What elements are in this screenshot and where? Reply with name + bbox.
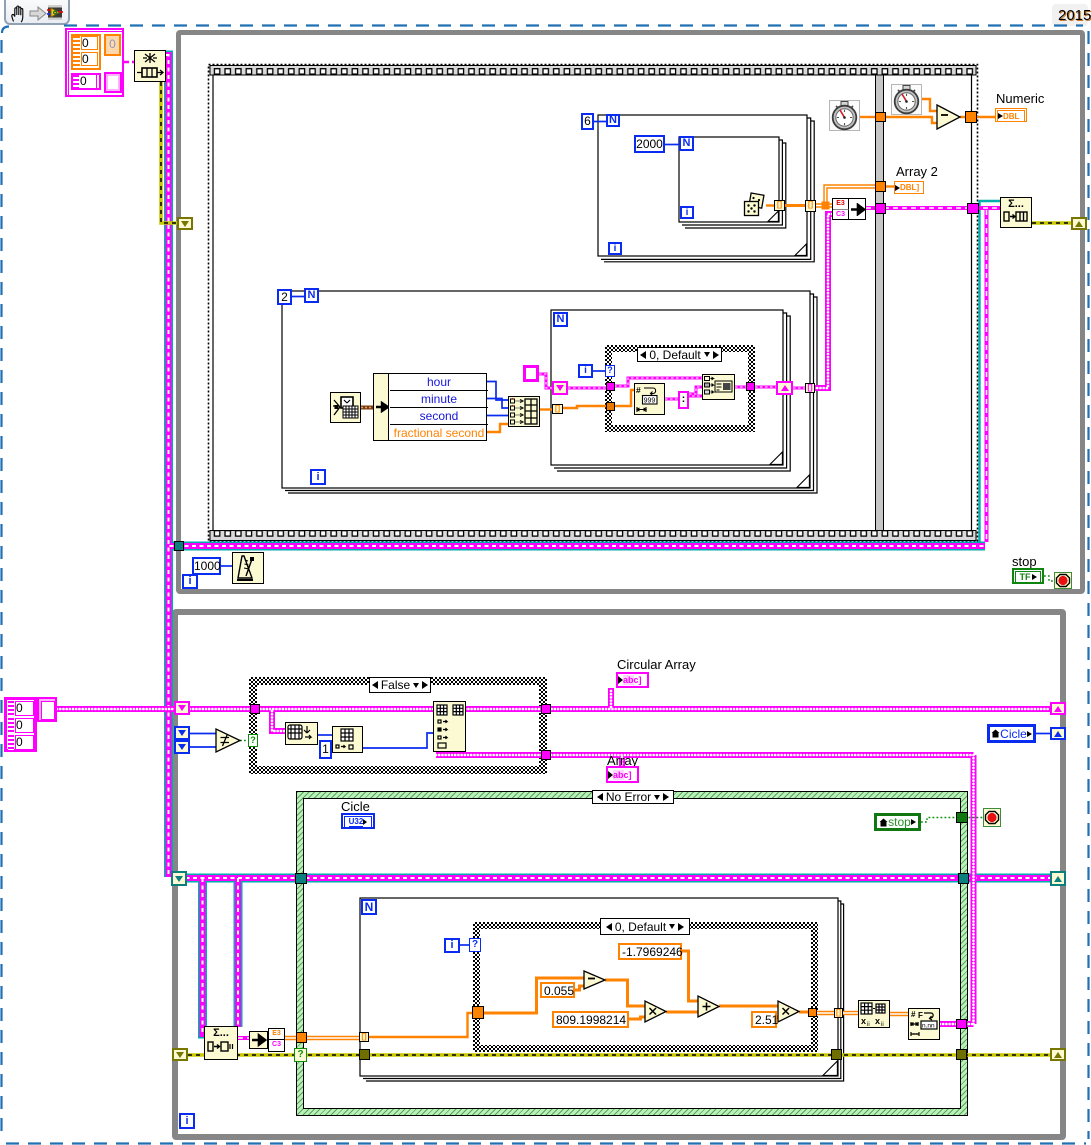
replace array subset icon (False case)	[433, 701, 466, 752]
wire: teal branch to queue node	[980, 201, 1001, 542]
olive tunnel green-border right	[956, 1049, 967, 1060]
delete from array icon (False case)	[332, 726, 363, 753]
magenta tunnel case E left	[606, 382, 615, 391]
orange tunnel case E left	[606, 402, 615, 411]
local variable stop	[874, 813, 921, 831]
loop B count terminal N	[679, 136, 694, 151]
terminal stop TF	[1012, 568, 1044, 584]
wire: blue wires	[190, 122, 1050, 946]
wire: orange scalar wires	[368, 99, 995, 1037]
index array icon (False case)	[285, 722, 318, 745]
wire: orange thick wires inside bottom case	[484, 206, 808, 1020]
constant 6	[581, 113, 594, 130]
interpolate 2D array node	[858, 1000, 890, 1028]
magenta tunnel green-border right (array out)	[956, 1019, 967, 1029]
case structure False border	[249, 677, 547, 774]
wire: composite teal/pink object wires	[166, 55, 1052, 1034]
shift register teal right (while2)	[1050, 871, 1066, 886]
for loop A fold corner	[795, 244, 806, 255]
op: multiply 2	[778, 1001, 799, 1022]
indicator Numeric DBL	[995, 108, 1027, 122]
toolbar hand icon	[9, 4, 29, 23]
array constant (bottom-left)	[4, 697, 37, 752]
svg-text:#: #	[636, 385, 641, 395]
sequence bottom film strip	[210, 531, 976, 541]
green junction square on case border	[956, 812, 968, 823]
loop F iteration terminal i	[444, 938, 460, 953]
for loop C fold corner	[797, 475, 809, 487]
toolbar run arrow icon	[29, 6, 47, 21]
icon: metronome (wait until next ms)	[233, 553, 264, 584]
constant 1	[319, 740, 332, 759]
enqueue node (sigma)	[1000, 197, 1032, 228]
tunnel [] loop F right	[834, 1008, 843, 1018]
shift register blue left b (while2)	[174, 740, 190, 754]
icon: dice (random number)	[745, 193, 764, 215]
olive shift register right (while1)	[1071, 217, 1087, 230]
indicator Cicle U32	[341, 813, 375, 829]
label Array 2	[896, 165, 938, 178]
svg-text:x: x	[875, 1016, 880, 1026]
while2 iteration terminal i	[179, 1113, 195, 1129]
stop button icon (bottom)	[983, 808, 1001, 827]
tunnel [] loop D left	[552, 404, 563, 414]
olive tunnel loop F left	[359, 1049, 370, 1060]
magenta tunnel case E right	[746, 382, 755, 391]
wire: pink dashed cluster wire	[124, 61, 134, 64]
while loop 1 (top) border	[176, 30, 1085, 594]
constant 1000	[192, 557, 221, 575]
tunnel [] loop B	[774, 200, 785, 211]
orange tunnel case G right	[808, 1008, 817, 1017]
unbundle by name node	[373, 373, 487, 441]
constant 2	[277, 289, 292, 305]
label Array	[607, 754, 638, 767]
svg-text:999: 999	[644, 397, 656, 404]
sequence structure outer dotted border	[209, 65, 978, 542]
case structure 0,Default (loop D) border	[605, 345, 755, 432]
icon: get date/time in seconds	[331, 393, 361, 423]
empty string constant (loop D)	[523, 365, 539, 382]
op: subtract (bottom case)	[584, 971, 605, 989]
for loop B (N=2000)	[679, 137, 786, 228]
junction dot on orange array wire	[822, 202, 830, 210]
for loop A (N=6)	[598, 115, 814, 262]
while loop 2 (bottom) border	[172, 609, 1066, 1140]
orange tunnel green-border left	[296, 1032, 307, 1043]
cluster constant (top-left, queue name cluster)	[65, 28, 124, 97]
shift register magenta right (while2)	[1050, 702, 1066, 715]
obtain queue node	[134, 50, 166, 82]
wire: magenta dashed branch (enqueue string)	[238, 208, 1000, 1038]
constant 0.055	[540, 982, 575, 998]
orange tunnel case G left	[472, 1006, 484, 1019]
indicator Array 2 DBL	[894, 181, 924, 194]
icon: stopwatch 1	[830, 101, 860, 131]
case G selector ?	[469, 938, 481, 952]
orange tunnel sequence right edge	[965, 111, 977, 123]
case selector ? (green case)	[294, 1048, 307, 1062]
orange tunnel sequence separator (array2)	[875, 181, 886, 192]
op: subtract (frame 2)	[937, 105, 960, 129]
svg-text:ii: ii	[881, 1022, 884, 1027]
convert node E3C3 (top)	[832, 198, 866, 220]
array constant element box	[37, 697, 57, 722]
local variable Cicle	[987, 724, 1036, 743]
op: not-equal	[216, 729, 240, 752]
format number node (999)	[634, 383, 665, 415]
label Circular Array	[617, 658, 696, 671]
wire: orange array double wires	[284, 187, 908, 1039]
for loop F (bottom)	[360, 898, 844, 1081]
magenta tunnel sequence right edge	[967, 203, 979, 214]
sequence separator frame1/frame2	[875, 75, 884, 530]
teal junction square green-border right	[958, 873, 969, 884]
svg-text:n.nn: n.nn	[922, 1023, 935, 1030]
convert node arrow+E3C3 (while2)	[249, 1028, 285, 1052]
olive tunnel loop F right	[831, 1049, 842, 1060]
while1 iteration terminal i	[182, 574, 198, 589]
teal junction square green-border left	[295, 873, 307, 884]
case False selector ?	[248, 734, 258, 747]
constant 809.1998214	[552, 1011, 629, 1028]
shift register magenta left (while2)	[174, 701, 190, 715]
magenta tunnel False right top	[541, 704, 551, 714]
magenta tunnel False left	[250, 704, 260, 714]
shift register magenta right (loop D)	[776, 381, 793, 395]
free label 2015	[1052, 4, 1088, 26]
toolbar panel	[4, 0, 70, 25]
constant 2.51	[751, 1011, 777, 1028]
for loop F fold corner	[823, 1061, 837, 1075]
sequence top film strip	[210, 66, 976, 76]
shift register blue right (while2)	[1050, 727, 1066, 740]
svg-text:x: x	[861, 1016, 866, 1026]
for loop D fold corner	[770, 452, 782, 464]
magenta tunnel False right bottom	[541, 750, 551, 760]
loop C iteration terminal i	[310, 469, 326, 485]
shift register teal left (while2)	[171, 871, 187, 886]
stop button icon (top)	[1054, 572, 1072, 589]
wire: green dotted boolean wires	[240, 576, 1054, 822]
case No Error label	[592, 790, 674, 804]
olive shift register left (while1)	[177, 217, 193, 230]
label Cicle (U32)	[341, 800, 370, 813]
tunnel [] loop F left	[359, 1032, 369, 1042]
icon: stopwatch 2	[892, 85, 922, 115]
label Numeric	[996, 92, 1044, 105]
loop C count terminal N	[304, 288, 319, 303]
case E label 0,Default	[637, 347, 722, 362]
for loop C (N=2)	[282, 291, 817, 493]
svg-text:#: #	[911, 1010, 916, 1019]
loop A iteration terminal i	[608, 242, 622, 255]
concatenate strings node	[702, 374, 735, 400]
constant 2000	[634, 135, 665, 153]
shift register olive left (while2)	[172, 1048, 188, 1061]
loop D iteration terminal i	[578, 364, 593, 378]
magenta tunnel sequence separator	[875, 203, 886, 214]
indicator Circular Array abc	[616, 672, 649, 688]
shift register blue left a (while2)	[174, 726, 190, 740]
case G label 0,Default	[600, 918, 690, 935]
number to fractional string node	[908, 1008, 940, 1040]
build array node	[508, 396, 540, 427]
wire: braided string-array wires	[57, 214, 1050, 1024]
teal junction square (while1 corner)	[174, 541, 184, 551]
toolbar VI icon	[47, 4, 63, 21]
dequeue node (sigma, while2)	[204, 1026, 238, 1060]
orange tunnel sequence separator (tick)	[875, 112, 886, 122]
label stop	[1012, 555, 1037, 568]
loop F count terminal N	[361, 899, 377, 915]
case E selector ?	[605, 365, 615, 377]
svg-text:ii: ii	[867, 1022, 870, 1027]
tunnel [] loop A	[805, 200, 816, 212]
for loop B fold corner	[768, 211, 778, 221]
shift register olive right (while2)	[1050, 1048, 1066, 1061]
shift register magenta left (loop D)	[552, 381, 568, 395]
sequence inner frame lines	[213, 75, 972, 530]
string constant ':'	[678, 391, 689, 409]
wire: olive error/queue wires	[161, 82, 1072, 1055]
wire: pink string scalar wires	[539, 374, 806, 399]
case structure No Error (green) border	[296, 791, 968, 1116]
tunnel [] loop C right	[805, 383, 815, 393]
loop D count terminal N	[553, 312, 568, 327]
svg-text:F: F	[918, 1011, 923, 1020]
case structure 0,Default (loop F) border	[473, 922, 818, 1052]
indicator Array abc	[606, 766, 639, 783]
wire: brown timestamp wire	[361, 406, 373, 410]
op: multiply 1	[645, 1001, 666, 1022]
loop B iteration terminal i	[680, 206, 694, 219]
op: add	[698, 996, 719, 1017]
loop A count terminal N	[606, 114, 620, 127]
for loop D (inner N)	[551, 310, 790, 471]
case False label	[369, 677, 431, 693]
constant -1.7969246	[618, 943, 682, 960]
